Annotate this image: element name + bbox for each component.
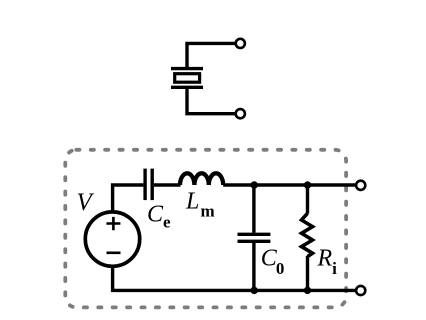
minus sign — [107, 252, 121, 255]
wire Lm to right terminal (top rail) — [223, 183, 355, 186]
terminal output top — [356, 181, 365, 190]
node junction top-left of C0 — [251, 181, 258, 188]
svg-text:C0: C0 — [261, 246, 285, 278]
wire C0 upper lead — [252, 185, 255, 233]
wire bottom rail — [113, 266, 356, 291]
wire source top to Ce — [113, 185, 144, 213]
capacitor Ce — [145, 169, 152, 201]
inductor Lm — [180, 173, 223, 185]
svg-text:Ri: Ri — [317, 246, 338, 279]
node junction bottom of Ri — [304, 287, 311, 294]
source V — [85, 212, 139, 266]
dashed equivalent-circuit boundary — [65, 150, 346, 308]
plus sign — [106, 217, 120, 230]
wire Ri lower lead — [306, 256, 309, 290]
node junction bottom of C0 — [251, 287, 258, 294]
wire Ce to Lm — [154, 183, 181, 186]
wire crystal bottom lead — [187, 89, 235, 114]
wire C0 lower lead — [252, 243, 255, 291]
node junction top of Ri — [304, 181, 311, 188]
svg-text:V: V — [77, 189, 95, 216]
resistor Ri — [302, 213, 313, 256]
svg-text:Ce: Ce — [147, 201, 171, 231]
wire Ri upper lead — [306, 185, 309, 214]
capacitor C0 — [238, 234, 271, 241]
terminal crystal top — [236, 39, 245, 48]
crystal Y1 — [171, 69, 203, 88]
terminal crystal bottom — [236, 109, 245, 118]
wire crystal top lead — [187, 43, 235, 67]
terminal output bottom — [356, 286, 365, 295]
svg-text:Lm: Lm — [185, 189, 215, 221]
